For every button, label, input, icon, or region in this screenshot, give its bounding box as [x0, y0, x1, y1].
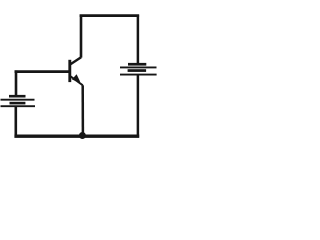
battery V1 (left)	[1, 95, 36, 106]
battery V2 (right)	[120, 63, 157, 75]
wire: left vertical lower	[15, 107, 18, 137]
transistor Q1	[70, 57, 83, 85]
wire: top rail from collector to right battery	[80, 14, 140, 17]
wire: emitter vertical	[81, 85, 84, 135]
wire: collector vertical	[80, 15, 83, 58]
wire: base lead	[15, 70, 70, 73]
wire: right vertical upper	[137, 15, 140, 64]
wire: left vertical upper (base side)	[15, 70, 18, 95]
wire: bottom rail	[14, 135, 139, 138]
junction dot (emitter to bottom rail)	[79, 132, 86, 139]
wire: right vertical lower	[137, 75, 140, 137]
